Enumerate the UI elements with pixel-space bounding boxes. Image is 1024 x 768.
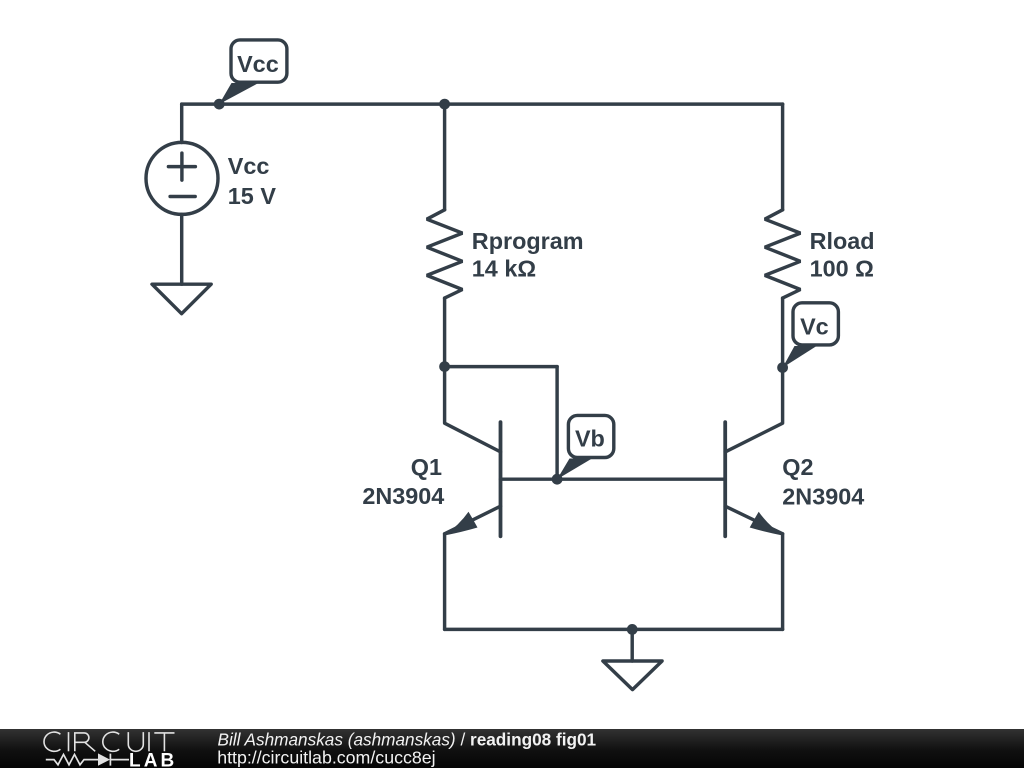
label callout Vc text [800,313,829,339]
wire base rail Q1 to Q2 [501,477,726,480]
transistor Q1 base bar [499,422,503,536]
wire Q2 emitter vertical [781,534,784,630]
svg-text:Vc: Vc [800,313,829,339]
junction dot ground node [627,624,638,635]
transistor Q2 emitter arrow [750,512,784,536]
callout Vc tail [783,346,817,368]
wire source bottom lead [180,214,183,284]
svg-text:LAB: LAB [129,750,177,768]
wire Rprogram top lead [443,104,446,210]
label callout Vb text [575,426,605,452]
label resistor value 14 kOhm [472,256,536,282]
transistor Q1 emitter arrow [444,512,478,536]
svg-text:Vb: Vb [575,426,605,452]
junction dot Vc node [777,362,788,373]
wire ground stem bottom [630,629,633,661]
svg-text:100 Ω: 100 Ω [810,256,874,282]
svg-text:Vcc: Vcc [228,153,270,179]
callout Vcc box [231,40,287,82]
callout Vb box [568,415,613,457]
transistor Q1 emitter diagonal [445,506,501,534]
svg-text:Q2: Q2 [782,454,813,480]
CircuitLab logo diode triangle [98,753,110,765]
label resistor name Rprogram [472,228,584,254]
label transistor name Q2 [782,454,813,480]
svg-text:15 V: 15 V [228,183,277,209]
callout Vb tail [557,459,592,480]
label transistor part 2N3904 left [362,483,444,509]
svg-text:Rload: Rload [810,228,875,254]
footer bar [0,729,1024,768]
svg-text:2N3904: 2N3904 [362,483,444,509]
resistor Rprogram zigzag [427,210,463,298]
transistor Q1 collector lead [445,367,501,452]
voltage source V1 Vcc circle [146,142,218,214]
transistor Q2 emitter diagonal [725,506,782,534]
label resistor value 100 Ohm [810,256,874,282]
svg-text:Rprogram: Rprogram [472,228,584,254]
svg-text:http://circuitlab.com/cucc8ej: http://circuitlab.com/cucc8ej [217,748,435,768]
wire Rload bottom lead to Q2 collector [725,298,782,452]
CircuitLab logo CIRCUIT letters [44,732,175,751]
wire Q1 emitter vertical [443,534,446,630]
footer url text [217,748,435,768]
ground symbol bottom [603,661,662,690]
svg-text:Vcc: Vcc [237,51,279,77]
label source name Vcc [228,153,270,179]
wire Rload top lead [781,104,784,210]
svg-text:Bill Ashmanskas (ashmanskas) /: Bill Ashmanskas (ashmanskas) / reading08… [218,730,597,750]
label transistor part 2N3904 right [782,483,864,509]
voltage source plus sign [168,153,195,180]
CircuitLab logo resistor-diode squiggle [46,754,129,766]
junction dot Rprogram bottom node [439,361,450,372]
svg-text:2N3904: 2N3904 [782,483,864,509]
resistor Rload zigzag [765,210,801,298]
label source value 15 V [228,183,277,209]
svg-text:14 kΩ: 14 kΩ [472,256,536,282]
transistor Q2 base bar [723,422,727,536]
wire collector-base tie vertical [555,367,558,480]
callout Vcc tail [219,83,258,104]
label transistor name Q1 [411,454,442,480]
callout Vc box [793,303,838,345]
junction dot Vcc tap [214,99,225,110]
wire bottom rail [445,628,783,631]
wire collector-base tie horizontal [445,365,557,368]
wire Rprogram bottom lead [443,298,446,367]
label callout Vcc text [237,51,279,77]
wire left vertical to source [180,104,183,142]
junction dot top rail Rprogram [439,99,450,110]
junction dot Vb node [552,474,563,485]
wire top rail Vcc net [182,102,783,105]
label resistor name Rload [810,228,875,254]
ground symbol left [152,284,211,314]
footer title text [218,730,597,750]
svg-text:Q1: Q1 [411,454,442,480]
voltage source minus sign [170,195,195,198]
CircuitLab logo LAB text [129,750,177,768]
